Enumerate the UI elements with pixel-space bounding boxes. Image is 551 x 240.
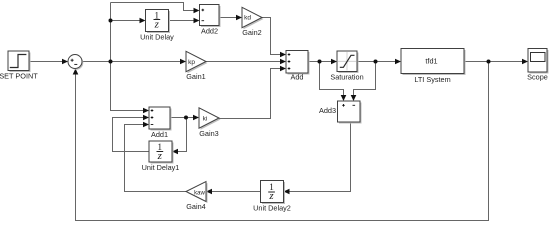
- svg-text:z: z: [157, 150, 163, 162]
- pin sign + (port 1): [288, 53, 291, 56]
- wire: Add2 output to Gain2: [219, 15, 242, 21]
- pin sign + (port 1): [71, 59, 74, 62]
- node: junction at branch x110.5 y61.5: [109, 60, 113, 64]
- pin sign - (port 2): [202, 20, 205, 22]
- svg-text:ki: ki: [203, 116, 208, 123]
- svg-text:Add3: Add3: [319, 106, 336, 115]
- block Unit Delay2: [253, 181, 291, 213]
- wire: branch vertical x=110.5 down to Add1 input 1: [111, 3, 150, 114]
- pin sign + (port 3): [288, 67, 291, 70]
- adder Add: [286, 51, 310, 82]
- wire: Gain3 output to Add input 3: [219, 66, 286, 119]
- adder Add1: [149, 107, 172, 139]
- wire: Add1 output to Gain3: [170, 115, 199, 121]
- gain Gain1 kp: [186, 51, 208, 81]
- source block SET POINT: [0, 51, 38, 81]
- gain Gain4 kaw (left pointing): [186, 182, 208, 212]
- saturation icon curve: [340, 55, 355, 67]
- adder Add2: [200, 5, 221, 36]
- pin sign - (port 2): [74, 63, 77, 65]
- wire: Add output to Saturation: [308, 59, 337, 65]
- svg-text:kaw: kaw: [194, 191, 205, 197]
- wire: Gain4 output to Add1 input 3: [125, 122, 187, 192]
- pin sign - (port 2): [353, 104, 356, 106]
- pin sign + (port 1): [151, 109, 154, 112]
- svg-text:z: z: [268, 190, 274, 202]
- svg-text:tfd1: tfd1: [425, 57, 437, 66]
- svg-text:Unit Delay: Unit Delay: [140, 33, 174, 42]
- node: junction at branch x110.5 y20.5: [109, 19, 113, 23]
- wire: Gain1 output to Add input 2: [206, 59, 286, 65]
- wire: Add3 output to Unit Delay2: [284, 122, 351, 194]
- pin sign + (port 2): [151, 116, 154, 119]
- gain Gain3 ki: [199, 108, 221, 138]
- svg-text:Gain4: Gain4: [186, 202, 205, 211]
- wire: Sum output to Gain1: [82, 59, 186, 65]
- svg-text:Gain2: Gain2: [242, 28, 261, 37]
- svg-text:Add: Add: [291, 73, 304, 82]
- svg-text:kd: kd: [244, 15, 251, 22]
- node: junction after Saturation: [374, 60, 378, 64]
- pin sign + (port 1): [342, 104, 345, 107]
- sink block Scope: [527, 49, 548, 82]
- block Saturation: [330, 51, 363, 82]
- svg-text:Scope: Scope: [527, 73, 548, 82]
- svg-text:Add2: Add2: [201, 27, 218, 36]
- step icon: [10, 55, 27, 68]
- wire: branch down to Unit Delay1 input: [172, 118, 187, 155]
- svg-text:Unit Delay2: Unit Delay2: [253, 204, 291, 213]
- svg-text:Saturation: Saturation: [330, 73, 363, 82]
- node: junction after Add1: [184, 116, 188, 120]
- node: junction after LTI System: [487, 60, 491, 64]
- wire: Gain2 output to Add input 1: [262, 18, 286, 58]
- svg-text:SET POINT: SET POINT: [0, 72, 38, 81]
- svg-text:Gain1: Gain1: [186, 72, 205, 81]
- wire: Unit Delay output to Add2 input 2: [169, 18, 200, 24]
- wire: Unit Delay1 output loop to Add1 input 2: [113, 115, 150, 152]
- block Unit Delay: [140, 10, 174, 42]
- wire: branch to Unit Delay input: [111, 18, 146, 24]
- adder Add3: [319, 101, 362, 124]
- svg-text:Gain3: Gain3: [199, 129, 218, 138]
- wire: SET POINT to Sum: [29, 59, 68, 65]
- wire: Saturation output to LTI System: [357, 59, 401, 65]
- node: junction after Add: [318, 60, 322, 64]
- svg-text:kp: kp: [188, 59, 195, 66]
- wire: branch to Add3 input 2: [351, 62, 376, 102]
- block Unit Delay1: [142, 141, 180, 172]
- wire: branch to Add3 input 1: [320, 62, 347, 102]
- wire: Unit Delay2 output to Gain4: [206, 189, 261, 195]
- wire: top wire to Add2 input 1: [111, 3, 200, 14]
- svg-text:z: z: [154, 19, 160, 31]
- svg-text:Unit Delay1: Unit Delay1: [142, 163, 180, 172]
- svg-text:LTI System: LTI System: [414, 75, 450, 84]
- pin sign - (port 3): [151, 124, 154, 126]
- scope screen icon: [531, 53, 546, 62]
- block LTI System tfd1: [401, 49, 466, 85]
- pin sign + (port 2): [288, 60, 291, 63]
- wire: LTI System output to Scope: [464, 59, 528, 65]
- summing junction Sum: [68, 55, 83, 70]
- gain Gain2 kd: [242, 7, 264, 37]
- pin sign + (port 1): [202, 9, 205, 12]
- svg-text:Add1: Add1: [151, 130, 168, 139]
- wire: outer feedback loop to Sum bottom: [73, 62, 489, 221]
- saturation icon axes: [338, 52, 356, 71]
